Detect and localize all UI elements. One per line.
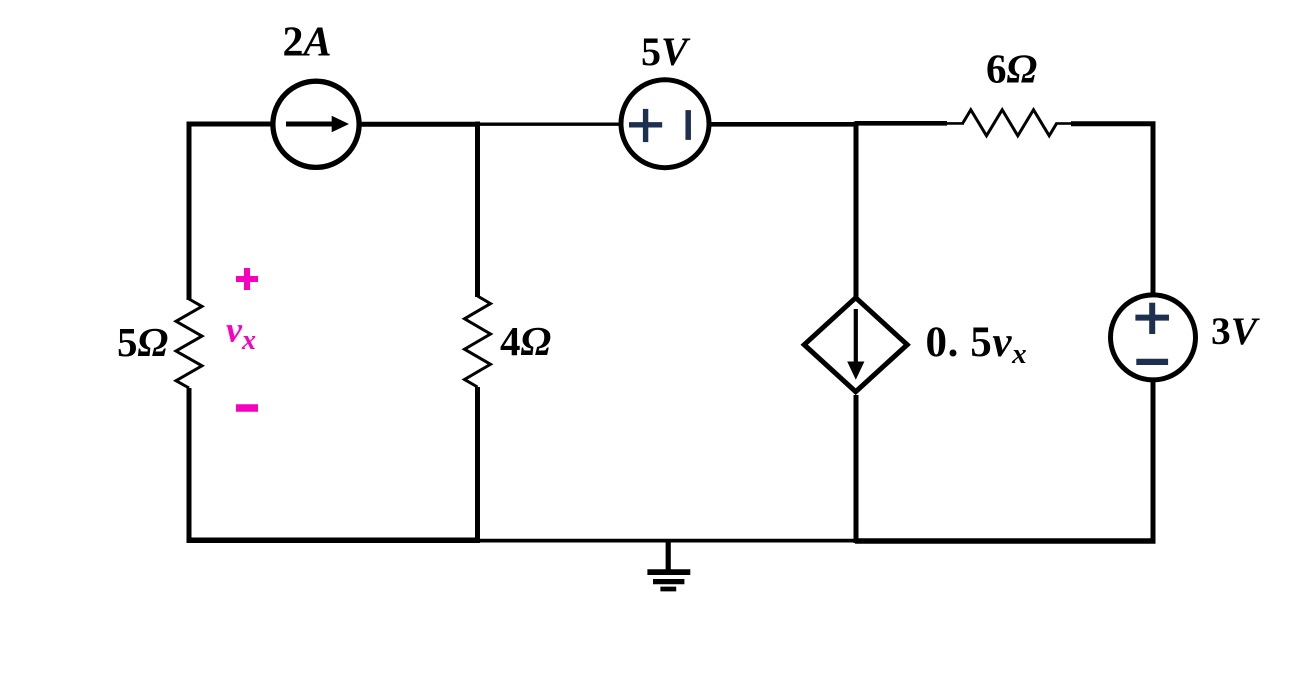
wire: thin lead into 6Ω [946,122,964,125]
current source 2A (circle with right arrow) [273,81,359,167]
wire: top-left horizontal segment [187,122,275,127]
wire: dependent-source top junction to 6Ω lead [855,121,947,126]
wire: 6Ω to top-right corner [1071,121,1156,126]
wire: left rail lower [187,388,192,543]
svg-text:0. 5vx: 0. 5vx [926,319,1028,370]
resistor 5Ω (vertical zigzag) [176,299,202,388]
wire: 4Ω branch lower [475,387,480,543]
wire: bottom rail left (corner to 4Ω junction) [187,538,480,544]
voltage source 5V (circle with + |) [621,80,709,168]
wire: 4Ω top junction to 5V source [476,123,622,126]
svg-text:4Ω: 4Ω [500,318,551,364]
wire: right rail lower (3V source to bottom-right corner) [1151,379,1156,543]
wire: 4Ω branch upper [475,122,480,298]
wire: bottom rail right (dependent source junction to corner) [855,538,1156,543]
wire: bottom rail middle (4Ω junction to dependent source junction) [476,539,857,543]
resistor 4Ω (vertical zigzag) [465,296,491,387]
ground [647,540,690,589]
dependent current source 0.5vx (diamond with down arrow) [804,298,907,392]
svg-text:5V: 5V [641,29,691,74]
svg-text:2A: 2A [283,20,332,66]
svg-text:5Ω: 5Ω [117,319,168,365]
annotation − (vx polarity, magenta) [236,404,258,412]
wire: 5V source to dependent-source top junction [708,122,858,127]
wire: current source to 4Ω top junction [359,122,479,127]
wire: dependent source branch lower [854,395,859,543]
annotation + (vx polarity, magenta) [236,268,258,290]
svg-text:3V: 3V [1211,309,1261,353]
svg-text:6Ω: 6Ω [986,46,1037,92]
wire: right rail upper (corner down to 3V source) [1151,122,1156,297]
wire: thin lead out of 6Ω [1056,122,1072,125]
resistor 6Ω (horizontal zigzag) [963,110,1057,136]
wire: dependent source branch upper [854,122,859,298]
wire: left rail upper [187,122,192,301]
voltage source 3V (circle with + over −) [1111,295,1196,380]
